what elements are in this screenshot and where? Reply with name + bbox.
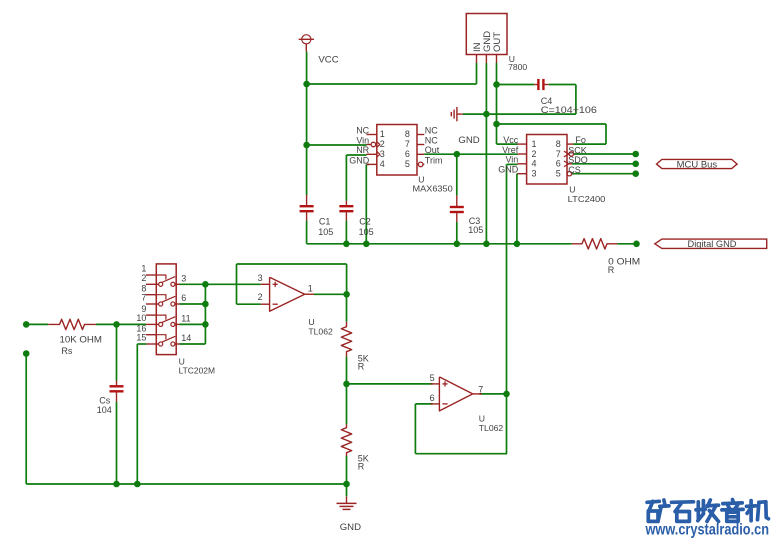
svg-text:Fo: Fo <box>575 135 586 145</box>
svg-text:3: 3 <box>258 273 263 283</box>
svg-text:R: R <box>608 265 615 275</box>
svg-text:2: 2 <box>380 139 385 149</box>
svg-text:104: 104 <box>97 405 112 415</box>
svg-text:Rs: Rs <box>61 346 72 356</box>
svg-text:SDO: SDO <box>568 155 588 165</box>
svg-text:Vin: Vin <box>356 135 369 145</box>
svg-text:R: R <box>358 461 365 471</box>
svg-text:6: 6 <box>181 293 186 303</box>
svg-text:MCU Bus: MCU Bus <box>677 159 718 169</box>
svg-text:www.crystalradio.cn: www.crystalradio.cn <box>645 522 769 539</box>
svg-text:LTC2400: LTC2400 <box>568 194 606 204</box>
svg-text:Vref: Vref <box>502 145 519 155</box>
svg-text:SCK: SCK <box>568 145 587 155</box>
svg-text:U: U <box>308 317 314 327</box>
svg-text:GND: GND <box>340 522 361 533</box>
svg-text:6: 6 <box>405 149 410 159</box>
svg-text:NR: NR <box>356 145 369 155</box>
svg-text:6: 6 <box>556 159 561 169</box>
svg-text:14: 14 <box>181 333 191 343</box>
svg-text:U: U <box>569 184 575 194</box>
svg-text:105: 105 <box>468 225 483 235</box>
svg-text:5: 5 <box>405 159 410 169</box>
svg-text:2: 2 <box>258 292 263 302</box>
svg-text:4: 4 <box>532 159 537 169</box>
svg-text:C=104+106: C=104+106 <box>541 105 597 116</box>
svg-text:Trim: Trim <box>425 155 443 165</box>
svg-text:NC: NC <box>425 135 438 145</box>
svg-text:8: 8 <box>405 129 410 139</box>
svg-text:5: 5 <box>556 169 561 179</box>
svg-text:LTC202M: LTC202M <box>179 365 215 375</box>
svg-text:Digital GND: Digital GND <box>688 239 737 249</box>
svg-text:U: U <box>479 413 485 423</box>
svg-text:105: 105 <box>318 227 333 237</box>
svg-text:10K OHM: 10K OHM <box>60 334 103 345</box>
svg-text:1: 1 <box>308 284 313 294</box>
svg-text:MAX6350: MAX6350 <box>413 183 453 193</box>
svg-text:7: 7 <box>556 149 561 159</box>
svg-text:TL062: TL062 <box>479 423 504 433</box>
svg-text:Vin: Vin <box>505 155 518 165</box>
svg-text:3: 3 <box>380 149 385 159</box>
svg-text:10: 10 <box>136 313 146 323</box>
svg-text:11: 11 <box>181 314 190 324</box>
svg-text:Vcc: Vcc <box>503 135 519 145</box>
svg-text:Out: Out <box>425 145 440 155</box>
svg-text:GND: GND <box>458 135 479 146</box>
svg-text:VCC: VCC <box>318 55 338 66</box>
svg-text:GND: GND <box>349 155 370 165</box>
svg-text:4: 4 <box>380 159 385 169</box>
svg-text:3: 3 <box>532 169 537 179</box>
svg-text:Cs: Cs <box>99 395 110 405</box>
svg-text:2: 2 <box>141 273 146 283</box>
svg-text:TL062: TL062 <box>308 327 333 337</box>
svg-text:1: 1 <box>380 129 385 139</box>
svg-text:7: 7 <box>141 293 146 303</box>
svg-text:R: R <box>358 361 365 371</box>
svg-text:2: 2 <box>532 149 537 159</box>
svg-text:C2: C2 <box>359 217 371 227</box>
svg-text:NC: NC <box>356 125 369 135</box>
svg-text:C1: C1 <box>319 217 331 227</box>
svg-text:GND: GND <box>498 165 519 175</box>
svg-text:OUT: OUT <box>492 32 503 52</box>
svg-text:7: 7 <box>478 384 483 394</box>
svg-text:7: 7 <box>405 139 410 149</box>
svg-text:105: 105 <box>359 227 374 237</box>
svg-text:NC: NC <box>425 125 438 135</box>
svg-text:CS: CS <box>568 165 581 175</box>
svg-text:7800: 7800 <box>508 62 527 72</box>
svg-text:3: 3 <box>181 273 186 283</box>
svg-text:5: 5 <box>430 373 435 383</box>
svg-text:15: 15 <box>136 333 146 343</box>
svg-text:1: 1 <box>532 139 537 149</box>
svg-text:6: 6 <box>430 393 435 403</box>
svg-text:8: 8 <box>556 139 561 149</box>
